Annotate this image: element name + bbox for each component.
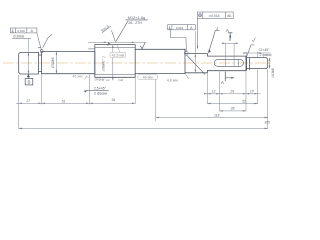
keyway width extension lines — [225, 43, 227, 66]
chamfer note top right — [246, 38, 272, 60]
leader of Ra note — [112, 31, 116, 42]
svg-text:2 фаски: 2 фаски — [94, 92, 107, 96]
roughness note Ra with shelf — [100, 23, 111, 33]
datum symbol below S1 — [25, 74, 33, 85]
arrows groove G2 dim — [243, 52, 246, 54]
svg-text:17: 17 — [26, 99, 30, 103]
svg-text:34: 34 — [111, 98, 115, 102]
extension line x207.4 — [206, 74, 208, 104]
svg-text:118: 118 — [214, 113, 220, 117]
leader diagonal — [246, 45, 252, 60]
leader of 42.5 box — [117, 45, 119, 53]
S4 dia dim line — [194, 31, 196, 73]
S1 dia dim line + datum leader — [27, 39, 29, 79]
extension line x135.2 — [134, 78, 136, 104]
FCF3 frame — [197, 12, 233, 19]
centerline axis — [3, 62, 273, 64]
arrows 13 29 10 — [204, 93, 207, 95]
svg-text:∅0,016: ∅0,016 — [209, 14, 220, 18]
keyway width dim line — [222, 42, 239, 44]
svg-text:10: 10 — [250, 90, 254, 94]
svg-text:С1×45°: С1×45° — [259, 48, 270, 52]
extension line x155.8 — [155, 74, 157, 121]
svg-text:13: 13 — [212, 90, 216, 94]
underline of d30k6 note — [12, 38, 31, 40]
keyway slot end arc line — [237, 60, 239, 67]
dimension line 17/51/34 chain — [16, 102, 135, 104]
section mark A top — [226, 28, 233, 40]
measurement overlay 46mm left — [73, 74, 89, 79]
arrow chamfer-2 leader — [208, 49, 211, 53]
chamfer leader diagonal on S4 — [187, 55, 205, 74]
relief groove G1 — [39, 52, 42, 74]
FCF3 leader down — [196, 19, 198, 49]
shaft section S5 keyed — [207, 56, 246, 71]
extension line x246 — [245, 72, 247, 112]
roughness symbol on groove G1 — [38, 34, 52, 48]
arrowheads — [19, 42, 268, 129]
svg-text:∅18k6: ∅18k6 — [271, 68, 275, 78]
extension line x219.5 — [219, 72, 221, 112]
measurement overlay 46mm right — [138, 74, 158, 79]
dimension line 13/29/10 — [204, 93, 261, 95]
measurement overlay 4.8mm — [167, 79, 178, 83]
extension line x18.7 — [18, 75, 20, 129]
svg-text:АБ: АБ — [227, 14, 231, 18]
arrows keyway width outside — [222, 42, 225, 44]
svg-text:42,5 мм: 42,5 мм — [112, 53, 125, 57]
svg-text:Б: Б — [27, 80, 30, 85]
chamfer callout 2 — [209, 27, 220, 52]
roughness circle on groove G1 — [40, 50, 43, 53]
extension line x41.6 — [41, 75, 43, 105]
svg-text:2 фаски: 2 фаски — [260, 53, 272, 57]
dimension line 28 — [220, 110, 247, 112]
measurement overlay 42.5mm — [110, 52, 126, 57]
arrows chain 17 51 34 — [19, 103, 22, 105]
thread callout M12 — [116, 16, 148, 42]
FCF1 leader to groove — [37, 33, 41, 50]
42.5 dim line above S3 — [88, 41, 146, 43]
leader of thread callout — [116, 21, 128, 42]
svg-text:∅32k6: ∅32k6 — [51, 58, 55, 69]
keyway slot on S5 — [214, 60, 243, 67]
S2 dia dim line — [55, 52, 57, 74]
relief groove G2 — [247, 59, 250, 70]
arrow M12 leader — [107, 42, 110, 46]
datum box — [25, 79, 33, 85]
shaft section S6 right end — [246, 56, 268, 71]
FCF1 frame — [10, 28, 37, 33]
roughness check on S3b top — [140, 43, 145, 49]
svg-text:26...27H: 26...27H — [128, 21, 142, 25]
shaft section S3 threaded — [95, 45, 135, 78]
overall dimension line 365 — [19, 127, 268, 129]
svg-text:0,016: 0,016 — [176, 26, 184, 30]
svg-text:∅42k6(₊₀₀₂: ∅42k6(₊₀₀₂ — [94, 77, 110, 81]
arrows overall 365 — [19, 128, 22, 130]
arrows 52 — [207, 103, 210, 105]
svg-text:А: А — [221, 80, 224, 85]
shaft section S4 — [185, 49, 207, 73]
roughness circle on step S3b/S4 — [184, 51, 188, 55]
section mark A bottom — [221, 72, 235, 86]
svg-text:⁾₀₁₈): ⁾₀₁₈) — [118, 77, 123, 81]
chamfer callout 2,5x45 below shaft — [84, 86, 109, 95]
arrowheads of diameter dims — [28, 52, 30, 55]
extension line x257.6 — [257, 69, 259, 103]
FCF2 symbol perpendicularity — [168, 26, 171, 29]
S3 dia dim line — [112, 45, 114, 81]
shaft section S2 — [42, 52, 95, 74]
svg-text:28: 28 — [230, 107, 235, 111]
dimension line 118 — [156, 117, 268, 119]
datum triangle — [27, 74, 30, 77]
FCF3 symbol concentricity — [199, 14, 202, 17]
svg-text:46 мм: 46 мм — [73, 74, 83, 78]
extension line x89.4 — [88, 75, 90, 105]
arrows 118 — [156, 117, 159, 119]
dimension line 52 — [207, 103, 257, 105]
FCF2 frame — [168, 25, 196, 30]
arrows 28 — [220, 110, 223, 112]
FCF2 leader to step face — [171, 30, 187, 51]
svg-text:∅30k6: ∅30k6 — [13, 35, 24, 39]
svg-text:46 мм: 46 мм — [143, 75, 153, 79]
shaft section S3b — [135, 49, 185, 73]
svg-text:51: 51 — [62, 99, 66, 103]
leader at S4 step corner — [185, 74, 188, 79]
S6 dia dim line — [269, 58, 271, 69]
FCF1 symbol perpendicularity — [11, 29, 14, 32]
groove G2 dim line — [243, 52, 271, 54]
svg-text:2,5×45°: 2,5×45° — [94, 86, 107, 90]
svg-text:0,016: 0,016 — [17, 29, 25, 33]
dimension texts — [26, 38, 270, 124]
extension line x267.7 — [267, 69, 269, 128]
svg-text:∅38k6(⁺⁻): ∅38k6(⁺⁻) — [102, 56, 106, 71]
svg-text:52: 52 — [242, 99, 246, 103]
shaft section S1 left journal — [19, 52, 39, 74]
rotated diameter texts — [51, 56, 275, 81]
roughness tick top right — [252, 38, 255, 42]
svg-text:29: 29 — [229, 90, 234, 94]
thread minor diameter lines S3 — [89, 47, 136, 74]
svg-text:М12×1-6g: М12×1-6g — [128, 16, 145, 20]
svg-text:365: 365 — [264, 121, 270, 125]
svg-text:4,8 мм: 4,8 мм — [167, 79, 178, 83]
